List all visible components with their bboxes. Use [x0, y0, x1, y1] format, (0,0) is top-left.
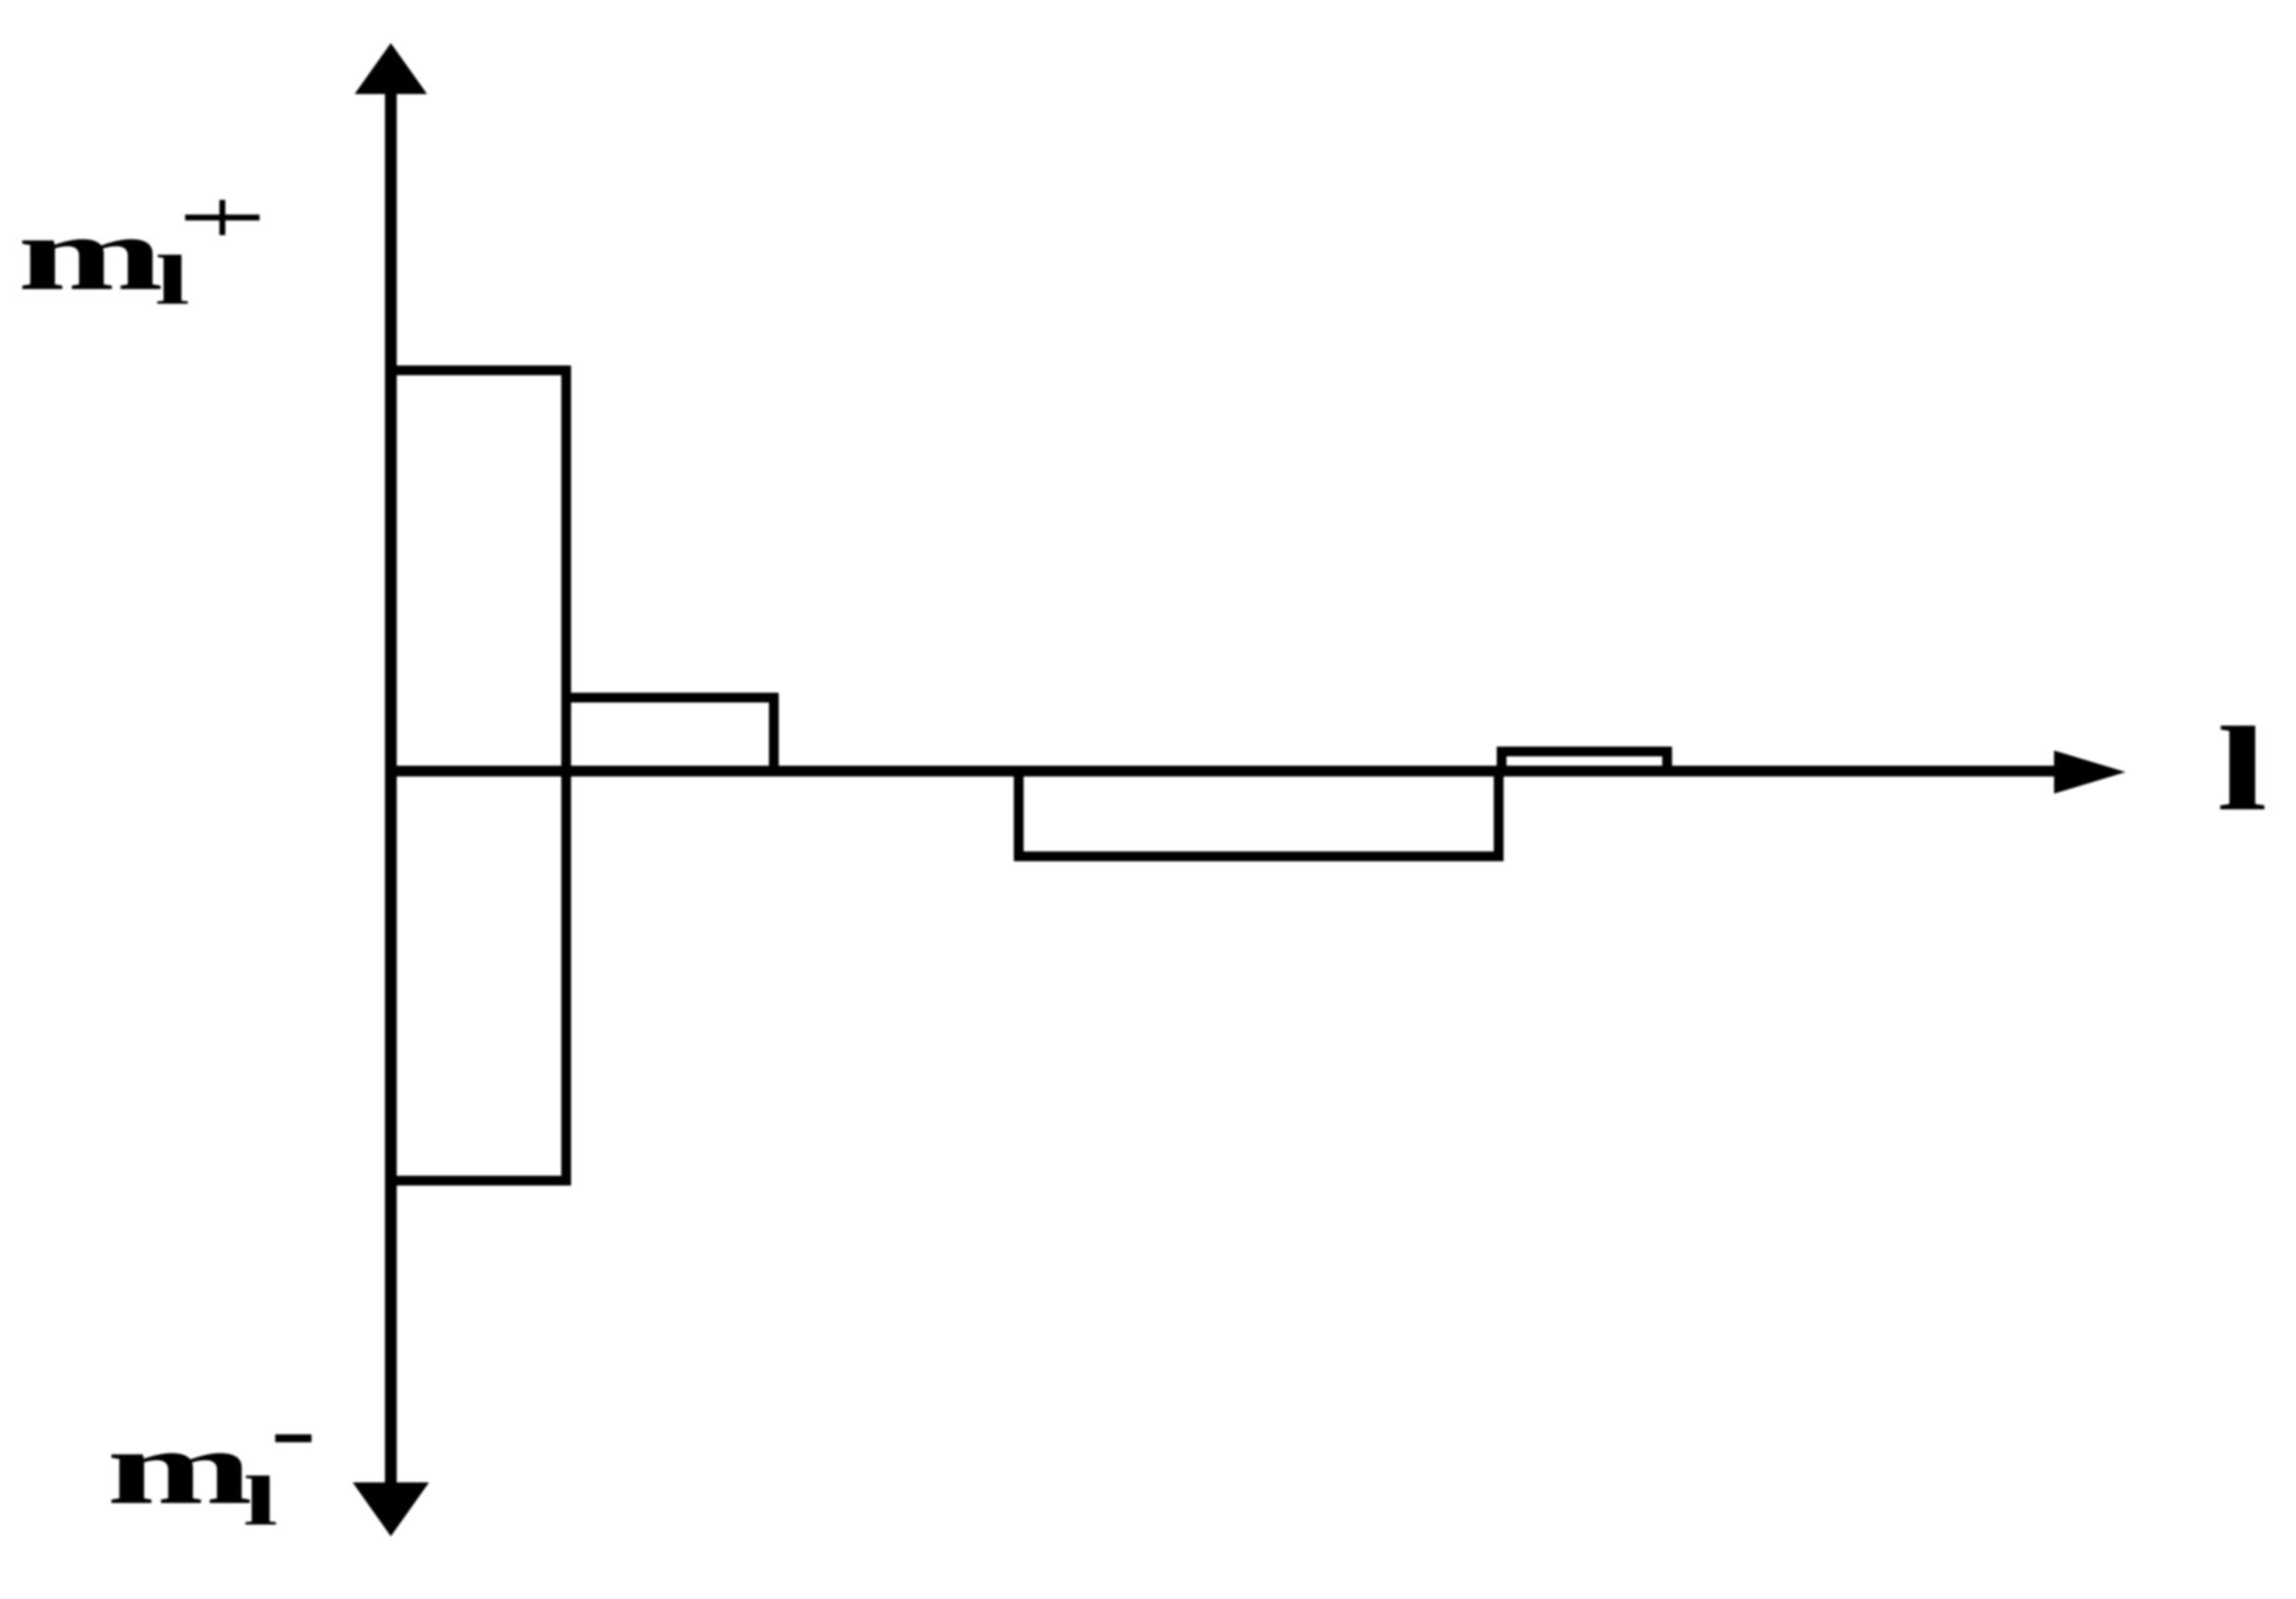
bar 4 thin positive rectangle: [1502, 751, 1667, 771]
label m_l^- : superscript minus: [275, 1434, 311, 1442]
svg-text:l: l: [2217, 702, 2268, 836]
x-axis right arrowhead: [2054, 751, 2126, 794]
svg-text:m: m: [107, 1410, 253, 1526]
y-axis up arrowhead: [355, 43, 427, 94]
bar 3 negative rectangle: [1019, 771, 1499, 856]
label m_l^+ : superscript plus: [185, 200, 260, 235]
svg-text:m: m: [18, 196, 164, 313]
x-axis: [391, 766, 2059, 777]
bar 1 tall rectangle crossing axis: [391, 370, 566, 1181]
bar 2 small positive rectangle: [566, 698, 774, 771]
svg-text:l: l: [155, 241, 190, 319]
svg-text:l: l: [243, 1462, 278, 1540]
y-axis down arrowhead: [353, 1482, 429, 1536]
y-axis: [385, 86, 397, 1487]
